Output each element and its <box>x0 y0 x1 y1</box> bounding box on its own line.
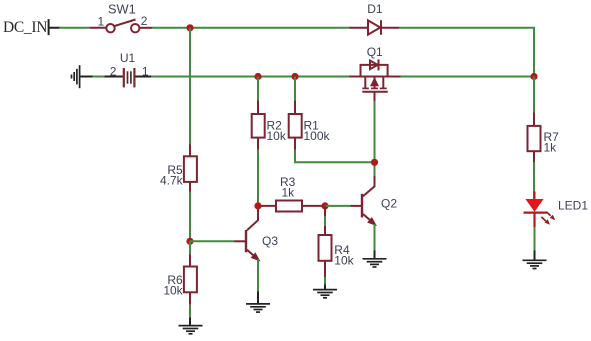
diode D1 <box>350 20 400 35</box>
svg-text:2: 2 <box>141 14 148 28</box>
junction dot N1 <box>186 24 193 31</box>
switch SW1 <box>90 20 153 33</box>
junction dot gate net <box>371 159 378 166</box>
resistor R7 <box>528 113 541 163</box>
junction dot R2 top <box>254 73 261 80</box>
wire D1 to right corner and down <box>399 28 534 77</box>
resistor R3 <box>258 201 325 212</box>
ground R6 <box>179 326 203 334</box>
resistor R6 <box>184 255 197 305</box>
wire <box>93 76 106 78</box>
ground for battery (rotated) <box>72 65 80 88</box>
junction dot R3 left <box>254 202 261 209</box>
svg-text:100k: 100k <box>304 129 331 143</box>
wire R3 to Q2 base <box>325 205 351 207</box>
junction dot R3 right <box>321 202 328 209</box>
svg-text:D1: D1 <box>367 2 383 16</box>
battery U1 <box>105 68 152 87</box>
ground Q3 <box>246 304 270 312</box>
wire R2 bottom to R3 node <box>257 150 259 206</box>
svg-text:1k: 1k <box>544 141 558 155</box>
wire right rail down to R7 <box>533 77 535 114</box>
svg-text:U1: U1 <box>120 51 136 65</box>
wire R4 to ground <box>324 277 326 285</box>
svg-text:LED1: LED1 <box>558 199 588 213</box>
wire R2 top <box>257 77 259 102</box>
wire Q2 emitter to ground <box>374 224 376 251</box>
svg-text:4.7k: 4.7k <box>160 173 184 187</box>
svg-text:2: 2 <box>110 65 117 79</box>
wire Q3 emitter to ground <box>257 259 259 291</box>
resistor R2 <box>252 101 265 150</box>
ground Q2 <box>363 259 387 267</box>
svg-text:SW1: SW1 <box>108 2 136 17</box>
wire SW1 to D1 <box>152 27 350 29</box>
transistor Q3 <box>235 206 259 260</box>
wire U1 to Q1 <box>151 76 349 78</box>
mosfet Q1 <box>349 59 400 101</box>
junction dot R5/R6/Q3 <box>186 238 193 245</box>
wire LED to ground <box>534 227 536 251</box>
svg-text:Q2: Q2 <box>381 196 397 210</box>
junction dot right rail <box>530 73 537 80</box>
transistor Q2 <box>351 176 375 224</box>
port DC_IN pin bar <box>49 19 60 35</box>
svg-text:1: 1 <box>98 14 105 28</box>
LED LED1 <box>524 192 556 228</box>
wire top junction down to R5 <box>189 28 191 145</box>
wire R3 node to R4 <box>324 206 326 227</box>
svg-text:10k: 10k <box>163 283 183 297</box>
svg-text:Q1: Q1 <box>367 45 383 59</box>
wire R1 top <box>294 77 296 102</box>
svg-text:Q3: Q3 <box>262 234 278 248</box>
ground R4 <box>313 290 337 298</box>
wire gate vertical <box>374 101 376 177</box>
resistor R4 <box>319 206 332 277</box>
wire R7 to LED <box>533 162 535 192</box>
resistor R5 <box>184 144 197 191</box>
junction dot R1 top <box>291 73 298 80</box>
wire R5 to node <box>189 192 191 242</box>
svg-text:1: 1 <box>142 65 149 79</box>
wire ground to battery (black stub) <box>80 76 92 78</box>
resistor R1 <box>289 101 302 150</box>
wire R1 bottom to gate net <box>295 150 375 163</box>
wire node to R6 <box>189 241 191 255</box>
wire R6 to ground <box>189 305 191 318</box>
wire Q1 to right <box>401 76 535 78</box>
wire node to Q3 base <box>190 240 235 242</box>
wire DC_IN to SW1 <box>59 27 90 29</box>
svg-text:10k: 10k <box>267 129 287 143</box>
svg-text:1k: 1k <box>282 185 296 199</box>
svg-text:10k: 10k <box>334 253 354 267</box>
svg-text:DC_IN: DC_IN <box>3 19 47 36</box>
ground LED <box>523 260 547 268</box>
